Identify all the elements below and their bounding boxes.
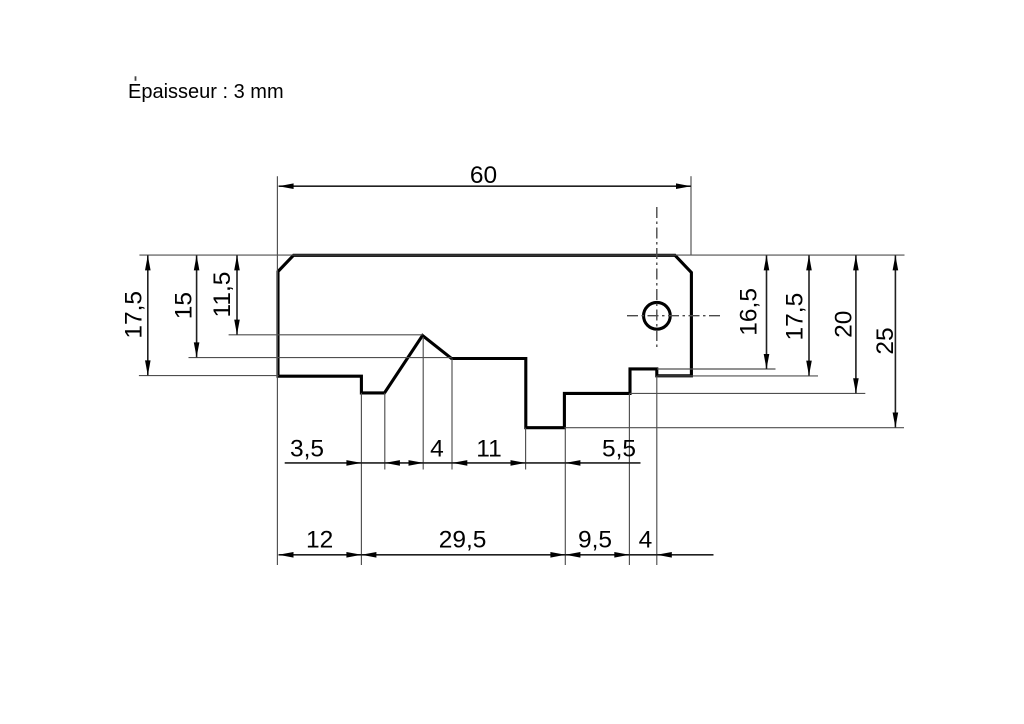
svg-text:11,5: 11,5	[209, 272, 236, 318]
hole centerline horizontal	[627, 315, 723, 317]
bottom row 2 dimension line	[279, 554, 714, 556]
svg-text:11: 11	[476, 435, 501, 462]
bottom row 1 dimension line	[285, 462, 641, 464]
dimension 16,5: top arrow	[764, 255, 770, 270]
svg-text:60: 60	[470, 162, 497, 189]
row2 arrow left-tip at 278.5 (dim 12)	[279, 552, 294, 558]
hole	[644, 302, 671, 329]
dimension 20: bottom arrow	[853, 378, 859, 393]
dimension 60: left arrow	[279, 183, 294, 189]
svg-text:4: 4	[430, 435, 444, 462]
dimension 11,5: bottom extension line	[229, 334, 423, 336]
dimension 20: bottom extension line	[630, 392, 865, 394]
svg-text:20: 20	[831, 311, 858, 338]
dimension 15: bottom arrow	[194, 342, 200, 357]
dimension 20: dimension line	[855, 255, 857, 393]
row2 arrow left-tip at 361.4 (dim 29,5)	[361, 552, 376, 558]
part outline	[278, 255, 691, 427]
svg-text:4: 4	[639, 527, 653, 554]
dimension 17,5 left: bottom extension line	[139, 375, 279, 377]
svg-text:17,5: 17,5	[781, 293, 808, 341]
svg-text:Epaisseur : 3 mm: Epaisseur : 3 mm	[128, 81, 284, 103]
row1 arrow left-tip at 384.9 (dim 3,5)	[385, 460, 400, 466]
shared extension line at x=565.3	[564, 428, 566, 565]
row1 arrow right-tip at 525.5 (dim 11 / 5,5)	[511, 460, 526, 466]
hole centerline vertical	[656, 207, 658, 347]
dimension 17,5 right: bottom extension line	[658, 375, 819, 377]
svg-text:12: 12	[306, 527, 333, 554]
dimension 17,5 right: dimension line	[808, 255, 810, 375]
dimension 11,5: dimension line	[236, 255, 238, 334]
dimension 60: right extension line	[690, 176, 692, 255]
row2 arrow right-tip at 361.4 (dim 12)	[346, 552, 361, 558]
dimension 17,5 left: bottom arrow	[145, 360, 151, 375]
shared extension line at x=361.4	[360, 393, 362, 565]
svg-text:3,5: 3,5	[290, 435, 324, 462]
dimension 25: bottom arrow	[893, 413, 899, 428]
row2 arrow right-tip at 629.3 (dim 9,5 / 4)	[614, 552, 629, 558]
shared extension line at x=656.8	[656, 376, 658, 565]
svg-text:16,5: 16,5	[736, 288, 763, 336]
dimension 15: bottom extension line	[189, 357, 452, 359]
dimension 25: bottom extension line	[564, 427, 904, 429]
bottom row 1 extension line at x=423.2 (peak)	[422, 337, 424, 470]
svg-text:9,5: 9,5	[578, 527, 612, 554]
row2 arrow left-tip at 656.8 (dim 4)	[657, 552, 672, 558]
dimension 16,5: bottom arrow	[764, 354, 770, 369]
shared top extension line (left and right)	[139, 254, 904, 256]
dimension 17,5 right: bottom arrow	[806, 361, 812, 376]
row1 arrow right-tip at 423.5 (dim 4)	[409, 460, 424, 466]
svg-text:5,5: 5,5	[602, 435, 636, 462]
dimension 16,5: bottom extension line	[657, 368, 776, 370]
svg-text:25: 25	[872, 327, 899, 354]
row1 arrow left-tip at 565.4 (dim 5,5)	[565, 460, 580, 466]
dimension 17,5 left: dimension line	[147, 255, 149, 375]
bottom row 1 extension line at x=384.8	[384, 393, 386, 470]
dimension 17,5 left: top arrow	[145, 255, 151, 270]
svg-text:29,5: 29,5	[439, 527, 487, 554]
row2 arrow left-tip at 565.4 (dim 9,5)	[565, 552, 580, 558]
dimension 60: right arrow	[676, 183, 691, 189]
svg-text:15: 15	[170, 292, 197, 319]
bottom row 1 extension line at x=525.6	[525, 428, 527, 470]
dimension 11,5: bottom arrow	[234, 320, 240, 335]
accent mark above E	[135, 76, 137, 81]
dimension 25: dimension line	[894, 255, 896, 427]
svg-text:17,5: 17,5	[120, 291, 147, 339]
dimension 15: dimension line	[196, 255, 198, 357]
shared extension line at x=629.4	[628, 393, 630, 565]
row1 arrow right-tip at 361.4 (dim 3,5)	[346, 460, 361, 466]
dimension 25: top arrow	[893, 255, 899, 270]
dimension 17,5 right: top arrow	[806, 255, 812, 270]
dimension 11,5: top arrow	[234, 255, 240, 270]
row2 arrow right-tip at 565.4 (dim 29,5)	[550, 552, 565, 558]
dimension 15: top arrow	[194, 255, 200, 270]
dimension 16,5: dimension line	[766, 255, 768, 369]
dimension 20: top arrow	[853, 255, 859, 270]
bottom row 1 extension line at x=452	[451, 359, 453, 470]
dimension 60: dimension line	[279, 185, 691, 187]
row1 arrow left-tip at 452.3 (dim 4 / 11)	[452, 460, 467, 466]
dimension 60: left extension line	[276, 176, 278, 565]
